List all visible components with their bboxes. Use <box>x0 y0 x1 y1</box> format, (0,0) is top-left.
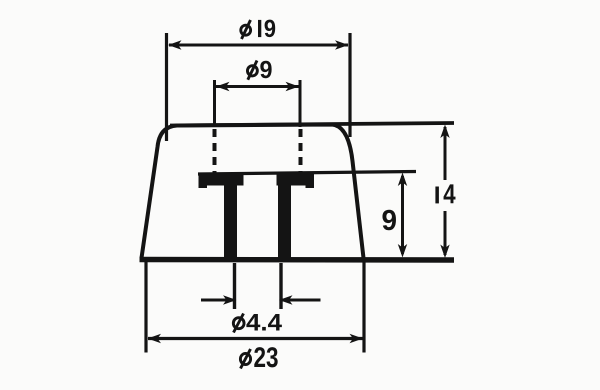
dim 14 bottom arrowhead pointing down <box>440 245 449 259</box>
dim phi9 right extension line (dashed inside body) <box>299 129 303 175</box>
dim phi4.4 left extension line <box>233 263 236 309</box>
dim phi9 label: phi symbol <box>247 61 257 80</box>
right pin stem <box>278 180 291 261</box>
dim 14 top arrowhead pointing up <box>440 125 449 139</box>
dim phi9 label: 9 <box>260 61 271 78</box>
dim phi9 left extension line (dashed inside body) <box>213 129 217 175</box>
dim phi4.4 left arrowhead pointing right <box>223 295 237 304</box>
right pin flange lip <box>306 174 315 189</box>
dim phi9 left extension line (solid above body) <box>213 80 216 127</box>
dim 14 label <box>435 187 439 204</box>
dim phi4.4 label: 4.4 <box>246 314 281 331</box>
right pin flange bar <box>277 174 315 186</box>
dim phi19 label: phi symbol <box>241 20 251 39</box>
left pin stem <box>224 180 237 261</box>
dim phi4.4 line (left tail) <box>201 299 236 302</box>
left pin flange bar <box>199 174 244 186</box>
dim phi19 label: 19 <box>258 20 261 37</box>
dim phi19 left arrowhead <box>168 40 182 49</box>
dim phi19 right extension line <box>348 33 351 137</box>
dim phi23 label: 23 <box>254 347 277 367</box>
dim phi9 right extension line (solid above body) <box>299 80 302 127</box>
dim phi23 line <box>148 337 363 340</box>
dim 14 vertical line upper segment <box>444 127 447 180</box>
body outline (rubber foot cross-section) <box>142 125 364 259</box>
dim phi9 right arrowhead <box>286 82 300 91</box>
dim phi23 right extension line <box>362 262 365 353</box>
dim 9 vertical line <box>401 176 404 254</box>
body top line + extension line for dim 14 <box>170 123 454 126</box>
dim phi9 left arrowhead <box>216 82 230 91</box>
dim 9 label <box>382 210 395 231</box>
dim phi4.4 right arrowhead pointing left <box>279 295 293 304</box>
dim phi23 right arrowhead <box>350 334 364 343</box>
dim phi23 left extension line <box>144 262 147 353</box>
dim 9 top arrowhead pointing up <box>398 173 407 187</box>
dim phi9 line <box>216 85 299 88</box>
dim 14 vertical line lower segment <box>444 211 447 255</box>
dim phi19 line <box>169 44 348 47</box>
dim phi4.4 right extension line <box>279 263 282 309</box>
dim phi19 left extension line <box>165 33 168 141</box>
body bottom line (extended right as extension for dims 9 and 14) <box>140 257 455 263</box>
dim 9 bottom arrowhead pointing down <box>398 244 407 258</box>
dim phi23 left arrowhead <box>148 334 162 343</box>
dim phi23 label: phi symbol <box>240 349 250 369</box>
dim phi4.4 label: phi symbol <box>233 314 244 333</box>
dim phi4.4 line (right tail) <box>280 299 321 302</box>
dim phi19 right arrowhead <box>335 40 349 49</box>
left pin flange lip <box>199 174 208 189</box>
flange line + extension line for dim 9 <box>198 172 416 175</box>
